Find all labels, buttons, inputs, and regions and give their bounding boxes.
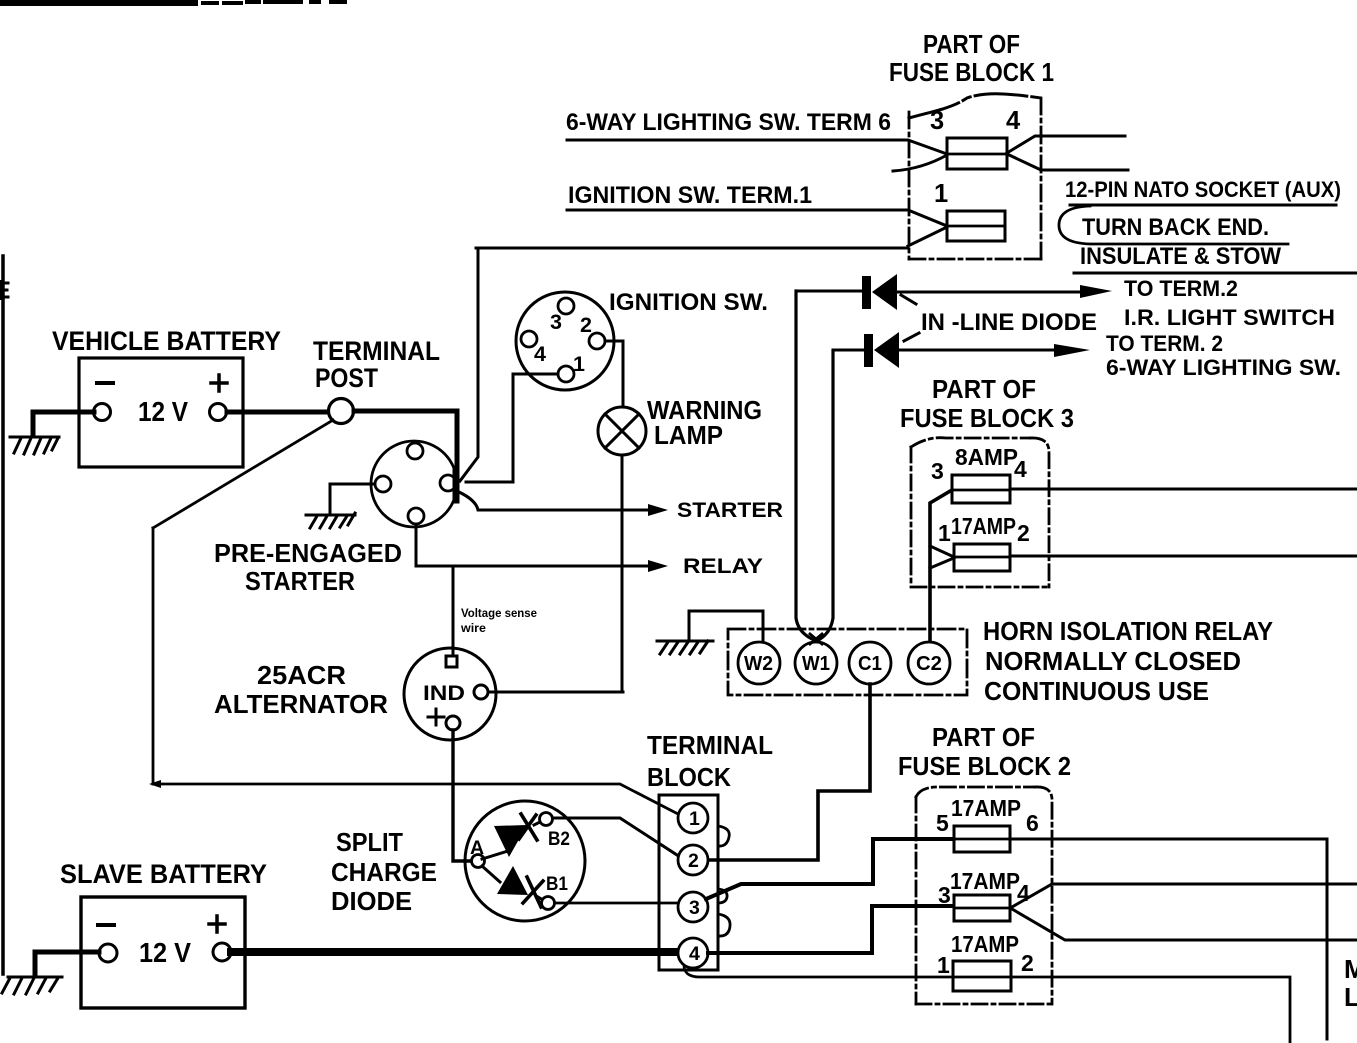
arrow to starter motor (648, 504, 668, 516)
wire: left vertical riser (152, 528, 155, 784)
wire: 8AMP fuse output to right edge (1010, 488, 1357, 491)
ground: slave battery earth (2, 977, 62, 994)
diode D3 (A to B2): filled triangle with crossed bar (482, 851, 508, 859)
wire: lower stub to fuse 3-4 (893, 155, 947, 171)
wire: terminal 4 bottom hook to fuse 1 of block 2 (684, 966, 953, 977)
pin: starter right (solenoid junction) (440, 475, 456, 491)
svg-text:SLAVE BATTERY: SLAVE BATTERY (60, 859, 267, 889)
terminal 2 (678, 845, 708, 875)
svg-text:IGNITION SW.: IGNITION SW. (609, 289, 768, 316)
enclosure: fuse block 1 (dash-dot outline) (909, 98, 1041, 259)
label: minus sign (98, 923, 114, 927)
svg-text:12 V: 12 V (138, 396, 189, 427)
svg-text:6-WAY LIGHTING SW. TERM 6: 6-WAY LIGHTING SW. TERM 6 (566, 109, 891, 136)
fuse F3 (8 AMP): cartridge (952, 475, 1010, 503)
terminal: slave battery negative post (99, 944, 117, 962)
svg-text:CHARGE: CHARGE (331, 857, 437, 887)
label: minus sign (97, 381, 113, 385)
wire: fuse 1-2 through-wire to right margin and down (953, 977, 1290, 1043)
svg-text:HORN ISOLATION RELAY: HORN ISOLATION RELAY (983, 618, 1273, 646)
enclosure: fuse block 3 (dash-dot outline) (911, 438, 1049, 587)
wire: B2 to terminal block 2 (553, 818, 677, 855)
ground: horn relay earth (657, 641, 713, 654)
svg-text:4: 4 (1014, 456, 1027, 482)
battery B2: slave battery box (81, 897, 245, 1008)
svg-text:17AMP: 17AMP (951, 513, 1016, 539)
svg-text:TURN BACK END.: TURN BACK END. (1082, 214, 1269, 241)
pin: alternator sense terminal (square) (446, 656, 457, 667)
svg-text:PART OF: PART OF (932, 376, 1036, 404)
svg-text:C2: C2 (916, 652, 942, 675)
diode D4 (A to B1): filled triangle with crossed bar (482, 866, 500, 882)
fuse F4 (17 AMP): cartridge (954, 544, 1010, 571)
diode D1: in-line diode (upper) (796, 290, 864, 293)
terminal: vehicle battery positive post (210, 404, 227, 421)
pin B2 of split charge diode (540, 813, 553, 826)
wire: D1 feed riser down to W1 funnel (left) (796, 291, 812, 639)
enclosure: fuse block 1 wavy top (909, 94, 1041, 118)
svg-text:4: 4 (534, 342, 546, 366)
svg-text:VEHICLE BATTERY: VEHICLE BATTERY (52, 326, 281, 356)
terminal 1 (678, 803, 708, 833)
svg-text:17AMP: 17AMP (951, 795, 1021, 821)
wire: C1 down, over and down to terminal block 2 (709, 684, 870, 860)
wire: long horizontal run to terminal block 1 (153, 784, 678, 814)
svg-text:2: 2 (580, 313, 592, 337)
svg-text:FUSE BLOCK 1: FUSE BLOCK 1 (889, 59, 1054, 87)
wire: pin 1 left and down to starter junction (466, 374, 558, 482)
svg-text:TERMINAL: TERMINAL (313, 336, 440, 366)
ground: vehicle battery earth (10, 437, 59, 454)
wire: dashed continuation of top-edge bus (203, 2, 345, 3)
svg-text:INSULATE & STOW: INSULATE & STOW (1080, 243, 1282, 270)
motor M1: pre-engaged starter circle (371, 441, 457, 527)
wire: terminal post to starter solenoid feed (thick) (354, 411, 457, 476)
label: plus sign (211, 375, 227, 391)
svg-text:1: 1 (938, 520, 951, 546)
svg-text:CONTINUOUS USE: CONTINUOUS USE (984, 678, 1209, 706)
svg-text:2: 2 (1017, 520, 1030, 546)
svg-text:4: 4 (1006, 107, 1021, 135)
wire: B1 to terminal block 3 (555, 902, 678, 905)
svg-text:3: 3 (930, 107, 944, 135)
svg-text:12 V: 12 V (139, 937, 192, 968)
underline below INSULATE & STOW (1074, 272, 1357, 275)
pin: alternator + output (446, 716, 460, 730)
wire: diagonal from terminal post down-left (153, 420, 333, 528)
wire: slave battery positive main lead to terminal block 4 (very thick) (231, 948, 678, 956)
battery B1: vehicle battery box (79, 358, 243, 467)
wire: IND terminal to warning lamp riser (488, 691, 623, 694)
svg-text:NORMALLY CLOSED: NORMALLY CLOSED (985, 648, 1241, 676)
label: plus sign (209, 916, 225, 932)
wire: taper from riser into 17AMP fuse (930, 546, 954, 568)
svg-text:RELAY: RELAY (683, 554, 763, 578)
svg-text:PART OF: PART OF (923, 31, 1020, 59)
wire: starter feed curve to STARTER arrow (459, 492, 650, 510)
terminal W1 (795, 642, 837, 684)
svg-text:POST: POST (315, 363, 378, 393)
svg-text:1: 1 (934, 180, 948, 208)
node E: cut-off connector stub on left edge (1, 283, 8, 297)
svg-text:SPLIT: SPLIT (336, 827, 403, 857)
svg-text:6: 6 (1026, 810, 1039, 836)
fuse F5 (17 AMP): cartridge (954, 826, 1010, 852)
svg-text:A: A (470, 837, 484, 859)
terminal 3 (678, 892, 708, 922)
svg-text:wire: wire (460, 623, 486, 635)
node: terminal post (329, 399, 354, 424)
alternator G1: 25ACR alternator circle (404, 648, 496, 740)
clip bumps on terminal block right edge (718, 826, 729, 846)
svg-text:FUSE BLOCK 3: FUSE BLOCK 3 (900, 405, 1074, 433)
svg-text:TO TERM. 2: TO TERM. 2 (1106, 331, 1223, 356)
junction blob at starter solenoid (453, 470, 460, 500)
svg-text:LAMP: LAMP (654, 420, 723, 450)
callout pill: TURN BACK END. (1070, 204, 1336, 207)
wire: alternator + output down to split charge diode A (453, 730, 471, 861)
wire: left-edge vertical conductor (cut off at left) (1, 256, 5, 974)
svg-text:2: 2 (1021, 950, 1034, 976)
pin A of split charge diode (472, 855, 485, 868)
svg-text:TO TERM.2: TO TERM.2 (1124, 276, 1238, 301)
wire: pin 2 to warning lamp (605, 341, 623, 407)
wire: D2 feed riser down to W1 funnel (right) (820, 351, 833, 639)
wire: slave battery negative lead to ground (35, 952, 99, 974)
svg-text:B2: B2 (548, 828, 570, 850)
svg-text:17AMP: 17AMP (951, 931, 1019, 957)
junction serif at corner of riser (149, 780, 161, 788)
pin 1 of ignition switch (558, 366, 574, 382)
wire: starter bottom pin to relay line (416, 524, 650, 566)
svg-text:STARTER: STARTER (245, 566, 355, 596)
wire: TERM 6 feed to fuse 3-4 (567, 140, 947, 154)
svg-text:4: 4 (689, 943, 700, 965)
wire: D2 output with arrow TO TERM.2 (899, 349, 1056, 352)
svg-text:I.R. LIGHT SWITCH: I.R. LIGHT SWITCH (1124, 305, 1335, 330)
fuse F2 (1): cartridge (947, 211, 1005, 241)
svg-text:C1: C1 (858, 652, 882, 675)
wire: warning lamp down to alternator IND feed (621, 455, 624, 692)
wire: horizontal to fuse block 1 lower fuse (476, 247, 908, 250)
svg-text:DIODE: DIODE (331, 886, 412, 916)
junction: funnel arrow crossing onto W1 (810, 634, 822, 644)
svg-text:3: 3 (689, 897, 700, 919)
label: plus sign at alternator output (428, 709, 444, 725)
pin: starter left (375, 476, 391, 492)
wire: 17AMP fuse output to right edge (1010, 555, 1357, 558)
svg-text:2: 2 (688, 850, 699, 872)
enclosure: fuse block 2 (dash-dot outline) (916, 787, 1052, 1004)
wire: ground bracket to W2 (689, 611, 763, 642)
connector: ignition switch circle (516, 292, 614, 390)
svg-text:1: 1 (689, 808, 700, 830)
fuse F7 (17 AMP): cartridge (953, 961, 1011, 991)
svg-text:IGNITION SW. TERM.1: IGNITION SW. TERM.1 (568, 182, 812, 209)
fuse F6 (17 AMP): cartridge (954, 895, 1010, 921)
svg-text:W2: W2 (744, 652, 773, 675)
diode D2: in-line diode (lower) (833, 349, 866, 352)
wire: fuse 4 output tapers to right edge (1012, 884, 1357, 907)
leader ticks to IN-LINE DIODE label (901, 295, 919, 341)
pin 2 of ignition switch (589, 333, 605, 349)
wire: fuse 6 output right and down the right margin (1010, 839, 1327, 1039)
wire: starter left pin to ground (330, 484, 375, 512)
terminal C1 (849, 642, 891, 684)
svg-text:17AMP: 17AMP (950, 868, 1020, 894)
svg-text:25ACR: 25ACR (257, 660, 346, 690)
svg-text:Voltage sense: Voltage sense (461, 608, 537, 620)
wire: terminal 4 through-feed up to fuse 3 of block 2 (708, 906, 954, 953)
svg-text:M: M (1344, 954, 1357, 984)
svg-text:ALTERNATOR: ALTERNATOR (214, 689, 388, 719)
terminal C2 (908, 642, 950, 684)
svg-text:STARTER: STARTER (677, 498, 783, 522)
svg-text:3: 3 (938, 882, 951, 908)
wire: voltage sense drop from relay line to alternator (452, 566, 455, 656)
svg-text:3: 3 (931, 458, 944, 484)
svg-text:6-WAY LIGHTING SW.: 6-WAY LIGHTING SW. (1106, 355, 1341, 380)
svg-text:W1: W1 (802, 652, 830, 675)
pin: starter top (407, 443, 423, 459)
svg-text:L: L (1344, 982, 1357, 1012)
svg-text:1: 1 (937, 952, 950, 978)
svg-text:5: 5 (936, 810, 949, 836)
wire: fuse block 1 feed riser down to starter junction (460, 250, 478, 481)
terminal: vehicle battery negative post (94, 404, 111, 421)
terminal block body (659, 795, 718, 970)
svg-text:1: 1 (573, 352, 585, 376)
wire: vehicle battery positive lead to terminal post (227, 410, 330, 415)
svg-text:IN -LINE DIODE: IN -LINE DIODE (921, 309, 1097, 336)
svg-text:PRE-ENGAGED: PRE-ENGAGED (214, 538, 402, 568)
lamp: warning lamp symbol (598, 407, 646, 455)
svg-text:12-PIN NATO SOCKET (AUX): 12-PIN NATO SOCKET (AUX) (1065, 177, 1341, 202)
wire: vehicle battery negative lead to ground (33, 412, 94, 434)
pin B1 of split charge diode (542, 897, 555, 910)
svg-text:8AMP: 8AMP (955, 444, 1018, 470)
pin: starter bottom (408, 508, 424, 524)
svg-text:BLOCK: BLOCK (647, 762, 731, 792)
svg-text:FUSE BLOCK 2: FUSE BLOCK 2 (898, 753, 1071, 781)
terminal W2 (738, 642, 780, 684)
svg-text:TERMINAL: TERMINAL (647, 730, 773, 760)
svg-text:IND: IND (423, 681, 465, 705)
svg-text:B1: B1 (546, 873, 568, 895)
terminal 4 (678, 938, 708, 968)
svg-text:3: 3 (550, 310, 562, 334)
wire: fuse 3-4 right tapers to NATO socket (1007, 136, 1125, 153)
pin: alternator IND terminal (474, 685, 488, 699)
wire: terminal 3 to fuse 5 of block 2 (706, 839, 954, 899)
wire: TERM.1 feed to fuse 1 (567, 210, 947, 226)
arrow to relay (648, 560, 668, 572)
wire: D1 output with arrow TO TERM.2 (897, 291, 1082, 294)
svg-text:PART OF: PART OF (932, 724, 1035, 752)
wire: lower feed to fuse 1 (908, 227, 947, 246)
split charge diode assembly circle (465, 801, 585, 921)
fuse F1 (3-4): cartridge (947, 138, 1007, 169)
relay K1: horn isolation relay enclosure (dash-dot) (728, 629, 967, 695)
pin 4 of ignition switch (521, 331, 537, 347)
ground: starter earth (306, 513, 355, 528)
wire: fuse block 3 common riser to C2 (930, 490, 952, 642)
wire: thick top-edge bus (cut off at top) (0, 0, 198, 6)
pin 3 of ignition switch (558, 298, 574, 314)
terminal: slave battery positive post (213, 943, 231, 961)
